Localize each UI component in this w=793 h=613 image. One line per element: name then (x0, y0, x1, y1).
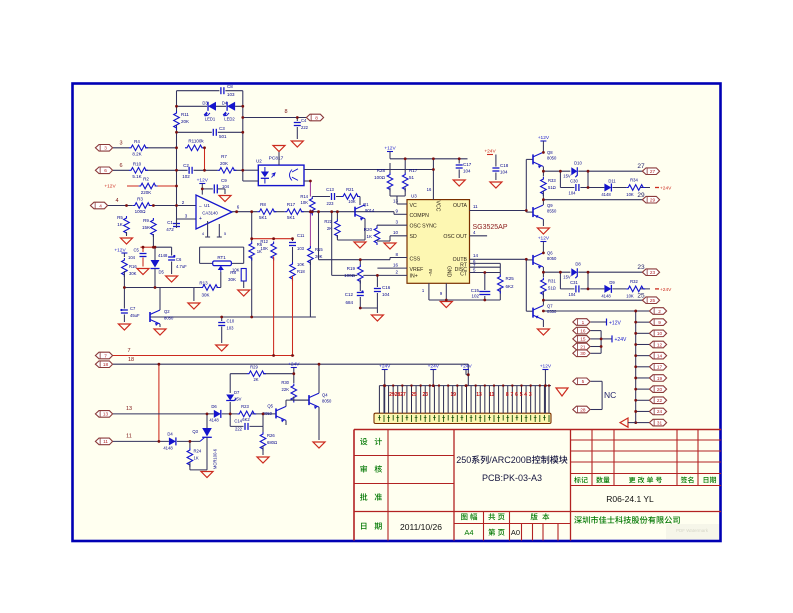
svg-text:8: 8 (506, 392, 509, 398)
svg-text:102: 102 (471, 294, 479, 299)
svg-text:9014: 9014 (365, 208, 375, 213)
svg-text:2011/10/26: 2011/10/26 (400, 522, 442, 532)
svg-text:D11: D11 (608, 179, 616, 184)
svg-text:C1: C1 (167, 220, 173, 225)
svg-text:R06-24.1 YL: R06-24.1 YL (606, 494, 654, 504)
svg-text:30: 30 (580, 351, 586, 356)
svg-text:IN+: IN+ (410, 274, 418, 280)
svg-text:8050: 8050 (322, 399, 332, 404)
svg-text:14: 14 (657, 353, 663, 358)
svg-text:R28: R28 (377, 168, 386, 173)
svg-text:15V: 15V (563, 275, 571, 280)
svg-text:8050: 8050 (164, 316, 174, 321)
svg-text:C2: C2 (183, 163, 189, 168)
svg-text:+24V: +24V (428, 364, 440, 370)
svg-text:9: 9 (658, 320, 661, 325)
svg-text:4: 4 (99, 203, 102, 208)
svg-text:10K: 10K (261, 246, 269, 251)
svg-text:4148: 4148 (601, 192, 611, 197)
svg-text:16: 16 (427, 187, 432, 192)
svg-text:D4: D4 (222, 101, 228, 106)
svg-text:21: 21 (580, 344, 586, 349)
svg-text:13: 13 (103, 412, 109, 417)
svg-text:250: 250 (456, 455, 471, 465)
svg-text:U2: U2 (256, 159, 262, 164)
svg-text:R5: R5 (117, 215, 123, 220)
svg-text:C7: C7 (130, 306, 136, 311)
svg-text:C30: C30 (570, 179, 578, 184)
svg-text:Q7: Q7 (547, 304, 553, 309)
svg-text:R12: R12 (260, 239, 268, 244)
svg-text:27: 27 (637, 163, 645, 170)
svg-text:VREF: VREF (410, 267, 424, 273)
svg-text:6: 6 (515, 392, 518, 398)
svg-text:R15: R15 (315, 247, 323, 252)
svg-text:R11: R11 (181, 112, 189, 117)
svg-text:C18: C18 (500, 163, 509, 168)
svg-text:10K: 10K (626, 192, 634, 197)
svg-text:20K: 20K (181, 119, 189, 124)
svg-text:COMPN: COMPN (410, 213, 430, 219)
svg-text:20K: 20K (220, 161, 228, 166)
svg-text:684: 684 (345, 300, 353, 305)
svg-text:Q8: Q8 (547, 150, 553, 155)
svg-text:100Ω: 100Ω (374, 175, 386, 180)
svg-text:+12V: +12V (538, 236, 550, 242)
svg-text:A4: A4 (464, 528, 473, 537)
svg-text:12: 12 (657, 342, 663, 347)
svg-text:6K2: 6K2 (242, 417, 250, 422)
svg-text:+12V: +12V (538, 135, 550, 141)
svg-text:1K: 1K (366, 234, 372, 239)
svg-text:R21: R21 (346, 187, 354, 192)
svg-text:OSC OUT: OSC OUT (443, 234, 467, 240)
svg-text:C9: C9 (221, 178, 227, 183)
svg-text:D10: D10 (574, 161, 582, 166)
svg-text:D3: D3 (202, 101, 208, 106)
svg-text:23: 23 (650, 270, 656, 275)
svg-text:222: 222 (235, 427, 243, 432)
svg-text:13: 13 (126, 406, 132, 412)
svg-text:+24V: +24V (288, 362, 300, 368)
svg-text:CA3140: CA3140 (202, 211, 218, 216)
svg-text:SG3525AP: SG3525AP (472, 224, 507, 231)
svg-text:4: 4 (202, 232, 204, 236)
svg-text:10: 10 (657, 331, 663, 336)
svg-text:LED1: LED1 (205, 117, 216, 122)
svg-text:51: 51 (409, 175, 415, 180)
svg-text:+24V: +24V (379, 364, 391, 370)
svg-text:D9: D9 (609, 280, 615, 285)
svg-text:R26: R26 (267, 433, 275, 438)
svg-text:103: 103 (297, 246, 305, 251)
svg-text:8.2K: 8.2K (132, 152, 141, 157)
svg-text:+24V: +24V (660, 287, 672, 293)
svg-text:7: 7 (127, 348, 130, 354)
svg-text:22: 22 (657, 398, 663, 403)
svg-text:R24: R24 (194, 449, 202, 454)
svg-text:+24V: +24V (660, 186, 672, 192)
svg-text:R25: R25 (506, 276, 515, 281)
svg-text:R16: R16 (129, 264, 137, 269)
svg-text:25: 25 (411, 392, 417, 398)
svg-text:6: 6 (119, 163, 122, 169)
svg-text:C8: C8 (227, 84, 233, 89)
svg-text:27: 27 (650, 169, 656, 174)
svg-text:IN−: IN− (428, 269, 433, 277)
svg-text:292827: 292827 (389, 392, 406, 398)
svg-text:3: 3 (104, 146, 107, 151)
svg-text:C3: C3 (219, 126, 225, 131)
svg-text:23: 23 (637, 264, 645, 271)
svg-text:5: 5 (224, 232, 226, 236)
svg-text:222: 222 (301, 125, 309, 130)
svg-text:Q5: Q5 (267, 404, 273, 409)
svg-text:C11: C11 (297, 233, 305, 238)
svg-text:PC817: PC817 (269, 156, 284, 162)
svg-text:104: 104 (463, 169, 471, 174)
svg-text:LED2: LED2 (224, 117, 235, 122)
svg-text:30K: 30K (228, 277, 236, 282)
svg-text:220K: 220K (141, 190, 152, 195)
svg-text:8550: 8550 (547, 209, 557, 214)
svg-text:100Ω: 100Ω (135, 209, 147, 214)
svg-text:3: 3 (119, 141, 122, 147)
svg-text:14: 14 (473, 253, 479, 258)
svg-text:472: 472 (166, 227, 174, 232)
svg-text:+24V: +24V (460, 364, 472, 370)
svg-text:100Ω: 100Ω (344, 273, 356, 278)
svg-text:NC: NC (604, 390, 616, 400)
svg-text:51Ω: 51Ω (548, 185, 556, 190)
svg-text:MCR100-6: MCR100-6 (213, 448, 218, 469)
svg-text:30K: 30K (201, 293, 209, 298)
svg-text:8050: 8050 (547, 156, 557, 161)
svg-text:103: 103 (227, 92, 235, 97)
svg-text:2: 2 (658, 309, 661, 314)
svg-text:OSC SYNC: OSC SYNC (410, 224, 437, 230)
svg-text:22K: 22K (282, 387, 290, 392)
svg-text:19: 19 (451, 392, 457, 398)
svg-text:CT: CT (460, 272, 468, 278)
svg-text:5K1: 5K1 (259, 215, 268, 220)
svg-text:4148: 4148 (209, 418, 219, 423)
svg-text:R31: R31 (548, 279, 556, 284)
svg-text:R14: R14 (300, 194, 308, 199)
svg-text:Q6: Q6 (547, 251, 553, 256)
svg-text:U1: U1 (204, 203, 210, 208)
svg-text:−: − (199, 204, 202, 210)
svg-text:C14: C14 (234, 419, 242, 424)
svg-text:10: 10 (393, 230, 399, 235)
svg-text:16: 16 (393, 263, 399, 268)
svg-text:D6: D6 (211, 404, 217, 409)
svg-text:PCB:PK-03-A3: PCB:PK-03-A3 (482, 473, 542, 483)
svg-text:R32: R32 (630, 279, 638, 284)
svg-text:R29: R29 (250, 365, 258, 370)
svg-text:29: 29 (650, 198, 656, 203)
svg-text:10K: 10K (348, 199, 356, 204)
svg-text:R20: R20 (364, 227, 373, 232)
svg-text:15: 15 (580, 337, 586, 342)
svg-text:10K: 10K (301, 200, 309, 205)
svg-text:U3: U3 (411, 194, 417, 199)
svg-text:7: 7 (511, 392, 514, 398)
svg-text:R7: R7 (221, 154, 227, 159)
svg-text:GND: GND (446, 266, 452, 278)
svg-text:8: 8 (315, 115, 318, 120)
svg-text:11: 11 (473, 204, 478, 209)
svg-text:R9: R9 (143, 218, 149, 223)
svg-text:R23: R23 (241, 404, 249, 409)
svg-text:R8: R8 (260, 202, 266, 207)
svg-text:501: 501 (219, 134, 227, 139)
svg-text:C13: C13 (326, 187, 334, 192)
svg-text:20: 20 (657, 387, 663, 392)
svg-text:1K: 1K (117, 222, 123, 227)
svg-text:5: 5 (582, 379, 585, 384)
svg-text:104: 104 (128, 255, 136, 260)
svg-text:Q9: Q9 (547, 203, 553, 208)
svg-text:5: 5 (520, 392, 523, 398)
svg-text:16: 16 (580, 328, 586, 333)
svg-text:18: 18 (103, 362, 109, 367)
svg-text:R17: R17 (409, 168, 418, 173)
svg-text:C15: C15 (471, 288, 480, 293)
svg-text:+24V: +24V (615, 337, 627, 343)
svg-text:104: 104 (222, 184, 230, 189)
svg-text:+12V: +12V (609, 321, 621, 327)
svg-text:2K: 2K (253, 377, 258, 382)
svg-text:R17: R17 (287, 202, 296, 207)
svg-text:15K: 15K (142, 225, 150, 230)
svg-text:103: 103 (227, 326, 235, 331)
svg-text:R13: R13 (199, 281, 208, 286)
svg-text:+: + (199, 216, 202, 222)
svg-text:4: 4 (115, 198, 118, 204)
svg-text:R4: R4 (134, 139, 140, 144)
svg-text:C6: C6 (176, 257, 182, 262)
svg-text:24: 24 (657, 409, 663, 414)
svg-text:VC: VC (410, 203, 417, 209)
svg-text:51Ω: 51Ω (548, 286, 556, 291)
svg-text:R10: R10 (133, 162, 142, 167)
svg-text:R3: R3 (137, 197, 143, 202)
svg-text:C4: C4 (301, 118, 307, 123)
svg-text:8: 8 (284, 109, 287, 115)
svg-text:5K1: 5K1 (287, 215, 296, 220)
svg-text:D4: D4 (167, 432, 173, 437)
svg-text:13: 13 (476, 392, 482, 398)
svg-text:+12V: +12V (197, 178, 209, 184)
svg-text:15V: 15V (234, 397, 242, 402)
svg-text:+12V: +12V (104, 184, 116, 190)
svg-text:R30: R30 (281, 380, 289, 385)
svg-text:31: 31 (657, 420, 663, 425)
svg-text:C16: C16 (382, 285, 391, 290)
svg-text:30K: 30K (129, 271, 137, 276)
svg-text:23: 23 (423, 392, 429, 398)
svg-text:VCC: VCC (435, 201, 441, 212)
svg-text:D5: D5 (159, 270, 165, 275)
svg-text:104: 104 (382, 292, 390, 297)
svg-text:Q2: Q2 (164, 309, 170, 314)
svg-text:10K: 10K (626, 294, 634, 299)
svg-text:1K: 1K (194, 456, 199, 461)
svg-text:R8: R8 (230, 270, 236, 275)
svg-text:223: 223 (327, 201, 335, 206)
svg-text:4148: 4148 (163, 446, 173, 451)
svg-text:4: 4 (524, 392, 527, 398)
svg-text:18: 18 (128, 357, 134, 363)
svg-text:C31: C31 (570, 280, 578, 285)
svg-text:D7: D7 (234, 390, 240, 395)
svg-text:6K2: 6K2 (506, 284, 515, 289)
svg-text:Q1: Q1 (363, 202, 369, 207)
svg-text:104: 104 (569, 191, 577, 196)
svg-text:Q3: Q3 (192, 429, 198, 434)
svg-text:4148: 4148 (601, 294, 611, 299)
svg-text:C5: C5 (134, 248, 140, 253)
svg-text:11: 11 (489, 392, 495, 398)
svg-text:R1100k: R1100k (188, 139, 204, 144)
svg-text:C17: C17 (463, 162, 472, 167)
svg-text:+12V: +12V (540, 364, 552, 370)
svg-text:Q4: Q4 (322, 393, 328, 398)
svg-text:R2: R2 (143, 177, 149, 182)
svg-text:8050: 8050 (547, 256, 557, 261)
svg-text:R18: R18 (297, 269, 305, 274)
svg-text:6: 6 (104, 168, 107, 173)
svg-text:17: 17 (657, 365, 663, 370)
svg-text:28: 28 (580, 407, 586, 412)
svg-text:RT1: RT1 (217, 255, 226, 260)
svg-text:C12: C12 (345, 292, 354, 297)
svg-text:OUTA: OUTA (453, 203, 468, 209)
svg-text:R33: R33 (548, 178, 556, 183)
svg-text:11: 11 (126, 434, 132, 440)
svg-text:+12V: +12V (384, 146, 396, 152)
svg-text:SD: SD (410, 234, 417, 240)
svg-text:5.1K: 5.1K (132, 174, 141, 179)
svg-text:C10: C10 (227, 319, 235, 324)
svg-text:R19: R19 (347, 266, 356, 271)
svg-text:104: 104 (500, 170, 508, 175)
svg-text:680Ω: 680Ω (267, 440, 277, 445)
svg-text:4148: 4148 (158, 253, 168, 258)
svg-text:4.7uF: 4.7uF (176, 264, 187, 269)
svg-text:10K: 10K (297, 262, 305, 267)
svg-text:104: 104 (569, 292, 577, 297)
svg-text:102: 102 (182, 174, 190, 179)
svg-text:PDF Watermark: PDF Watermark (676, 528, 709, 533)
svg-text:A0: A0 (511, 528, 520, 537)
svg-text:1: 1 (582, 320, 585, 325)
svg-text:25: 25 (650, 298, 656, 303)
svg-text:D8: D8 (575, 262, 581, 267)
svg-text:+24V: +24V (484, 149, 496, 155)
svg-text:3: 3 (529, 392, 532, 398)
svg-text:/ARC200B: /ARC200B (489, 455, 532, 465)
svg-text:CSS: CSS (410, 257, 421, 263)
svg-text:13: 13 (393, 199, 399, 204)
svg-text:19: 19 (657, 376, 663, 381)
svg-text:45uF: 45uF (130, 313, 140, 318)
svg-text:11: 11 (103, 439, 108, 444)
svg-text:R34: R34 (630, 178, 638, 183)
svg-text:7: 7 (104, 353, 107, 358)
